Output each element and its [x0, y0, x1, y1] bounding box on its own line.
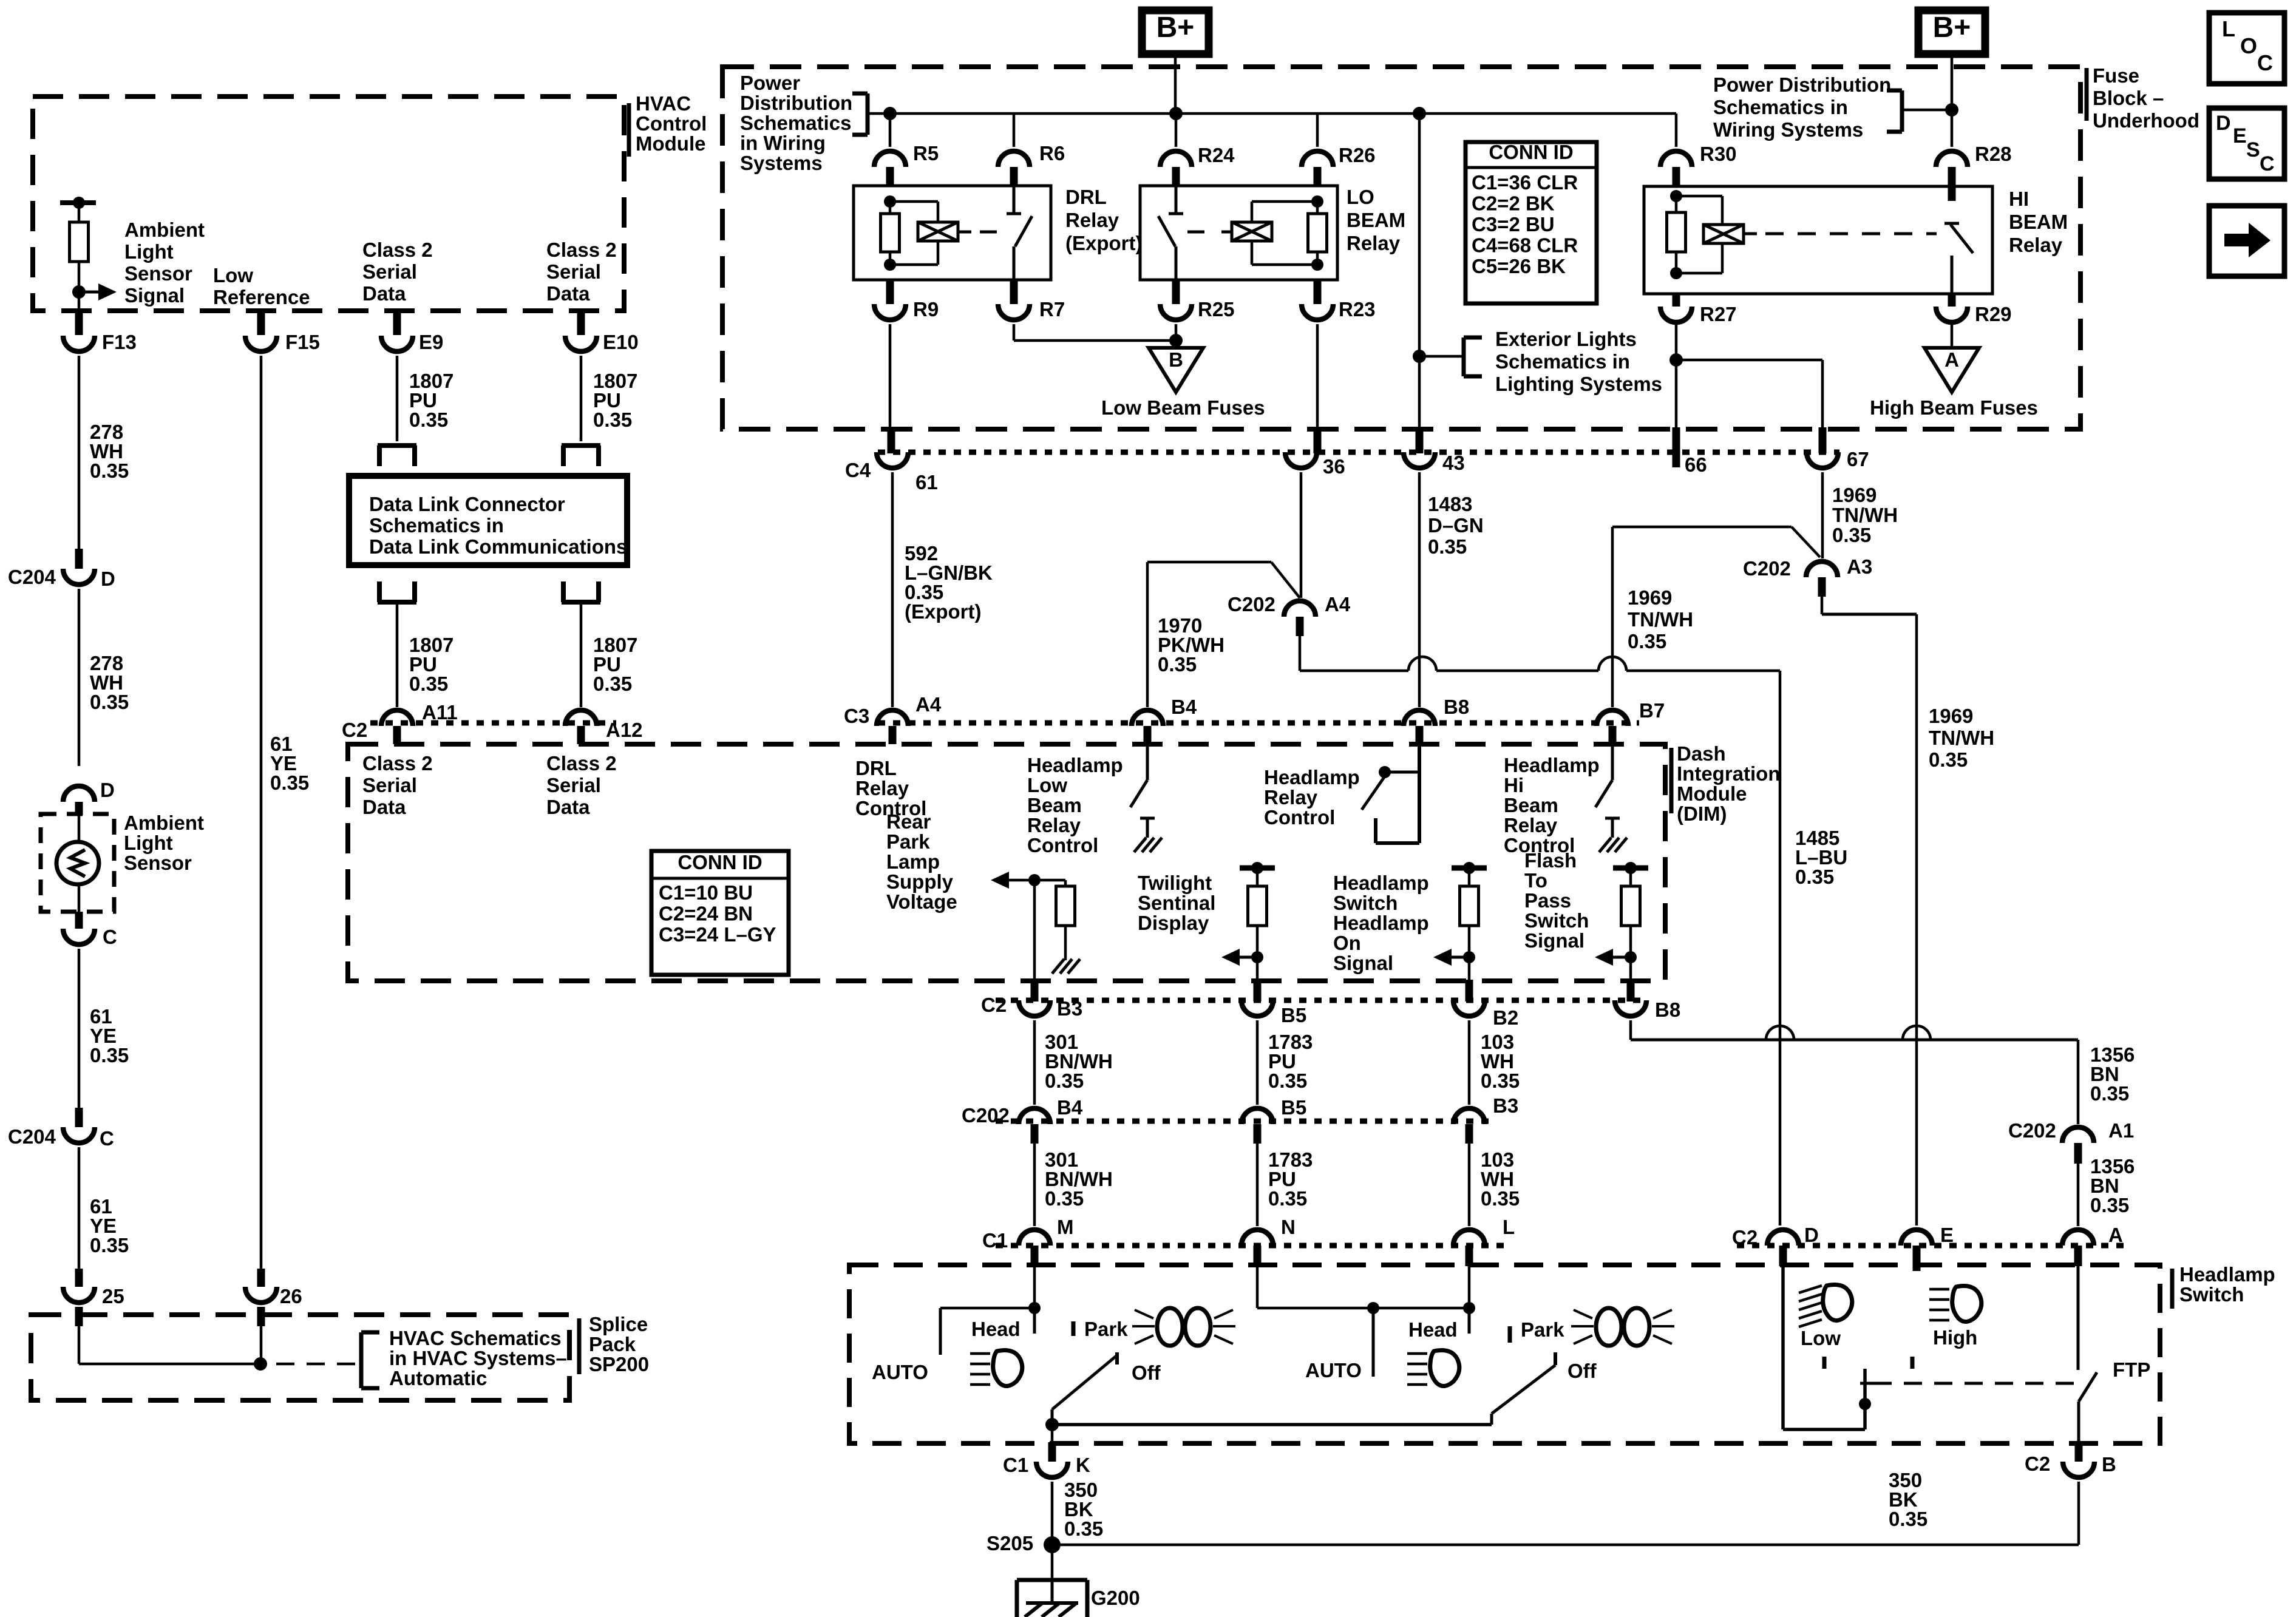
auto contact switch 2 — [1372, 1308, 1375, 1377]
svg-text:0.35: 0.35 — [1045, 1187, 1084, 1210]
wire E stub into switch — [1915, 1266, 1918, 1271]
twilight sentinel circuit top bar — [1240, 866, 1275, 871]
low contact — [1822, 1357, 1827, 1369]
junction B+ R24 feed — [1169, 107, 1183, 120]
DRL relay switch — [1013, 186, 1016, 214]
svg-text:Automatic: Automatic — [389, 1367, 487, 1389]
svg-text:B3: B3 — [1057, 997, 1082, 1020]
wire — [78, 203, 81, 222]
svg-text:C202: C202 — [962, 1104, 1010, 1127]
connector D ambient light sensor — [63, 786, 95, 802]
svg-text:B8: B8 — [1655, 998, 1680, 1021]
wire 36 to C202 A4 — [1300, 472, 1303, 598]
headlamp icon switch 1 — [993, 1351, 1022, 1386]
svg-text:Exterior Lights: Exterior Lights — [1495, 328, 1637, 350]
DRL relay (export) box — [854, 186, 1051, 280]
svg-text:Headlamp: Headlamp — [1504, 754, 1600, 776]
svg-text:HI: HI — [2009, 188, 2029, 210]
park contact switch 2 — [1508, 1326, 1512, 1343]
svg-text:High Beam Fuses: High Beam Fuses — [1870, 396, 2038, 419]
svg-text:C4: C4 — [845, 459, 871, 481]
svg-text:D: D — [100, 779, 115, 801]
wire to A12 — [580, 602, 583, 707]
svg-text:B+: B+ — [1933, 12, 1971, 44]
svg-text:Module: Module — [636, 132, 705, 155]
svg-text:(DIM): (DIM) — [1677, 802, 1727, 825]
svg-text:B2: B2 — [1493, 1006, 1518, 1029]
svg-text:Systems: Systems — [740, 152, 823, 174]
svg-text:A3: A3 — [1847, 555, 1872, 578]
svg-text:Low Beam Fuses: Low Beam Fuses — [1101, 396, 1265, 419]
switch headlamp hi beam relay control — [1611, 744, 1614, 780]
svg-text:Module: Module — [1677, 782, 1747, 805]
wire 1483 D-GN 43 to B8 — [1418, 472, 1421, 707]
connector C3 A4 — [877, 710, 908, 726]
wire 43 from feed — [1418, 114, 1421, 427]
svg-text:E: E — [1940, 1224, 1954, 1246]
svg-text:R28: R28 — [1975, 143, 2012, 165]
connector C202 A1 — [2062, 1127, 2094, 1143]
ambient light sensor dashed box — [41, 814, 114, 912]
dotted connector row C3 B4 B8 B7 — [878, 720, 1639, 726]
auto contact switch 1 — [940, 1307, 1034, 1310]
connector B4 — [1132, 710, 1163, 726]
svg-text:R26: R26 — [1339, 144, 1376, 166]
svg-text:Park: Park — [886, 830, 930, 853]
svg-text:66: 66 — [1685, 453, 1707, 476]
junction 43 feed — [1413, 107, 1426, 120]
connector C202 A3 — [1806, 561, 1838, 577]
svg-text:High: High — [1933, 1326, 1977, 1349]
svg-text:M: M — [1057, 1216, 1074, 1238]
svg-text:Head: Head — [971, 1318, 1021, 1340]
svg-text:C202: C202 — [2008, 1119, 2056, 1142]
svg-text:0.35: 0.35 — [1795, 866, 1834, 888]
svg-text:Underhood: Underhood — [2093, 109, 2199, 132]
svg-text:D: D — [101, 568, 115, 590]
flash to pass circuit top bar — [1613, 866, 1648, 871]
connector 36 — [1285, 452, 1317, 468]
svg-text:C2: C2 — [981, 994, 1007, 1016]
svg-text:Ambient: Ambient — [124, 812, 204, 834]
svg-text:Headlamp: Headlamp — [1264, 766, 1360, 788]
flash to pass resistor — [1622, 886, 1640, 926]
splice S205 — [1044, 1536, 1061, 1553]
svg-text:A4: A4 — [915, 693, 942, 716]
svg-text:Hi: Hi — [1504, 774, 1524, 796]
bracket power distribution left — [866, 93, 870, 135]
connector C2 D — [1767, 1230, 1799, 1246]
connector C202 A4 — [1284, 601, 1316, 617]
LO BEAM relay resistor — [1311, 195, 1323, 208]
wire A3 down to E — [1821, 597, 1824, 614]
svg-text:A: A — [2108, 1224, 2123, 1246]
connector C2 B — [2075, 1442, 2083, 1462]
HI BEAM relay coil — [1676, 195, 1722, 198]
svg-text:FTP: FTP — [2113, 1358, 2150, 1381]
bracket HVAC schematics — [359, 1332, 364, 1388]
svg-text:Sensor: Sensor — [124, 262, 192, 285]
HVAC Control Module dashed box — [33, 97, 624, 311]
connector C ambient light sensor — [75, 912, 83, 929]
svg-text:Serial: Serial — [546, 774, 601, 796]
wire R25 to low beam fuses — [1175, 324, 1178, 341]
svg-text:R25: R25 — [1198, 298, 1235, 320]
svg-text:C202: C202 — [1743, 557, 1791, 580]
connector B5 row3 — [1241, 1108, 1273, 1124]
svg-text:1969: 1969 — [1929, 705, 1973, 727]
wire B to S205 run — [2077, 1482, 2080, 1545]
svg-text:CONN ID: CONN ID — [678, 851, 762, 873]
svg-text:Sentinal: Sentinal — [1138, 892, 1215, 914]
dotted connector row C2 B3 B5 B2 B8 — [996, 998, 1648, 1003]
svg-text:Power: Power — [740, 72, 800, 94]
svg-text:Headlamp: Headlamp — [1333, 912, 1429, 934]
svg-text:Lamp: Lamp — [886, 850, 940, 873]
svg-text:Control: Control — [636, 112, 707, 135]
svg-text:Wiring Systems: Wiring Systems — [1713, 118, 1863, 141]
svg-text:0.35: 0.35 — [1268, 1187, 1307, 1210]
LOC reference box — [2209, 13, 2284, 84]
svg-text:R24: R24 — [1198, 144, 1235, 166]
svg-text:R6: R6 — [1039, 142, 1065, 164]
wire R29 to high beam fuses — [1951, 324, 1954, 348]
CONN ID box fuse block — [1466, 142, 1597, 303]
wire E10 class 2 serial data — [577, 312, 585, 335]
wire R23 to 36 — [1316, 324, 1319, 429]
wire switch common line — [1052, 1423, 1492, 1426]
svg-text:C2: C2 — [2025, 1453, 2050, 1475]
svg-text:LO: LO — [1347, 186, 1374, 208]
wire headlamp on to B2 — [1468, 957, 1471, 980]
svg-text:Twilight: Twilight — [1138, 872, 1212, 894]
headlamp on signal circuit top bar — [1452, 866, 1487, 871]
svg-text:Head: Head — [1408, 1318, 1458, 1341]
wire feed bus — [868, 112, 1676, 115]
svg-text:A1: A1 — [2108, 1119, 2134, 1142]
svg-text:C2=24 BN: C2=24 BN — [659, 903, 753, 925]
rear park lamp circuit arrow — [991, 872, 1009, 889]
svg-text:0.35: 0.35 — [90, 691, 129, 713]
svg-text:Schematics in: Schematics in — [369, 514, 504, 537]
svg-text:F15: F15 — [285, 331, 320, 353]
low beam icon — [1823, 1285, 1852, 1321]
wire bracket to B+ right — [1902, 109, 1952, 112]
wire B3 to C202 B4 — [1033, 1020, 1036, 1105]
wire twilight to B5 — [1256, 957, 1259, 980]
svg-text:AUTO: AUTO — [1305, 1359, 1362, 1381]
svg-text:C: C — [2260, 152, 2275, 175]
svg-text:N: N — [1281, 1216, 1296, 1238]
twilight sentinel resistor — [1248, 886, 1267, 926]
svg-text:Pass: Pass — [1524, 889, 1571, 912]
wire 67 down to A3 — [1821, 472, 1824, 558]
svg-text:B4: B4 — [1057, 1096, 1083, 1119]
connector 26 splice pack — [257, 1269, 265, 1287]
svg-text:Class 2: Class 2 — [546, 239, 617, 261]
svg-text:K: K — [1076, 1454, 1090, 1476]
wire R7 to low beam fuses — [1013, 324, 1016, 341]
off contact switch 2 — [1554, 1352, 1557, 1365]
HI BEAM relay switch — [1944, 222, 1959, 225]
park contact switch 1 — [1072, 1321, 1076, 1336]
fuse block label bar — [2085, 68, 2089, 121]
svg-text:Park: Park — [1084, 1318, 1128, 1340]
svg-text:F13: F13 — [102, 331, 137, 353]
svg-text:Off: Off — [1567, 1360, 1597, 1382]
bracket E10 to data link box — [562, 443, 600, 448]
svg-text:B4: B4 — [1171, 696, 1197, 718]
switch 1 blade — [1052, 1355, 1118, 1409]
svg-text:1969: 1969 — [1832, 484, 1877, 506]
svg-text:To: To — [1524, 869, 1547, 892]
svg-text:DRL: DRL — [1065, 186, 1107, 208]
svg-text:Headlamp: Headlamp — [2179, 1263, 2275, 1286]
connector C1 M — [1019, 1230, 1050, 1246]
svg-text:BEAM: BEAM — [2009, 211, 2068, 233]
wire B+ left — [1174, 54, 1177, 114]
wire C202 B3 to C1 L — [1468, 1144, 1471, 1226]
ground G200 — [1017, 1578, 1087, 1582]
connector R6 — [1013, 114, 1016, 147]
connector E9 — [381, 336, 413, 351]
wire 278 WH 2 — [78, 589, 81, 766]
fuse block underhood dashed box — [722, 67, 2080, 429]
wire E9 class 2 serial data — [393, 312, 401, 335]
svg-text:61: 61 — [915, 471, 938, 493]
DESC reference box — [2209, 108, 2284, 179]
wire 61 YE — [78, 949, 81, 1108]
svg-text:0.35: 0.35 — [90, 1044, 129, 1066]
dotted connector row C202 B4 B5 B3 — [996, 1119, 1493, 1124]
svg-text:0.35: 0.35 — [1481, 1070, 1520, 1092]
svg-text:C: C — [103, 926, 117, 948]
LO BEAM relay coil — [1252, 200, 1317, 203]
svg-text:Light: Light — [124, 832, 173, 854]
HVAC Control Module label bar — [627, 103, 631, 157]
svg-text:0.35: 0.35 — [90, 1234, 129, 1256]
head contact switch 1 — [1033, 1308, 1036, 1334]
svg-text:C3: C3 — [844, 705, 869, 727]
wire A4 down to D — [1299, 636, 1302, 671]
dotted connector row C2 A11 A12 — [370, 720, 616, 726]
svg-text:Display: Display — [1138, 912, 1209, 934]
wire N into switch — [1256, 1266, 1259, 1308]
svg-text:B5: B5 — [1281, 1096, 1306, 1119]
svg-text:R7: R7 — [1039, 298, 1065, 320]
park lamps icon switch 2 — [1596, 1308, 1622, 1346]
svg-text:Integration: Integration — [1677, 762, 1781, 785]
svg-text:A12: A12 — [606, 719, 643, 741]
connector 67 — [1819, 427, 1827, 453]
connector A12 — [565, 710, 597, 726]
connector C204 C — [75, 1108, 83, 1127]
svg-text:C3=24 L–GY: C3=24 L–GY — [659, 923, 776, 946]
wire A to FTP — [2077, 1266, 2080, 1370]
svg-text:A: A — [1944, 348, 1959, 371]
svg-text:Supply: Supply — [886, 870, 954, 893]
svg-text:0.35: 0.35 — [593, 408, 632, 431]
svg-text:Ambient: Ambient — [124, 219, 205, 241]
svg-text:SP200: SP200 — [589, 1353, 649, 1375]
svg-text:Control: Control — [1264, 806, 1335, 829]
svg-text:Class 2: Class 2 — [362, 752, 433, 775]
dotted connector row C1 M N L — [996, 1243, 1506, 1249]
wire D into beam select — [1781, 1266, 1785, 1429]
connector E — [1901, 1230, 1932, 1246]
svg-text:Relay: Relay — [1027, 814, 1081, 836]
bracket power distribution right — [1900, 90, 1904, 132]
svg-text:R29: R29 — [1975, 303, 2012, 325]
svg-text:B+: B+ — [1156, 12, 1195, 44]
connector B5 row2 — [1241, 1000, 1273, 1016]
svg-text:Class 2: Class 2 — [362, 239, 433, 261]
svg-text:E10: E10 — [603, 331, 639, 353]
svg-text:Switch: Switch — [1333, 892, 1398, 914]
svg-text:B7: B7 — [1639, 699, 1665, 722]
headlamp on signal resistor — [1460, 886, 1479, 926]
wire R9 to C4 — [889, 324, 892, 429]
svg-text:D–GN: D–GN — [1428, 514, 1484, 537]
headlamp switch label bar — [2170, 1269, 2175, 1309]
connector A — [2062, 1230, 2094, 1246]
svg-text:B3: B3 — [1493, 1094, 1518, 1117]
LO BEAM relay linkage dashes — [1187, 231, 1214, 234]
connector C1 K — [1036, 1462, 1068, 1477]
svg-text:Beam: Beam — [1504, 794, 1558, 816]
connector R9 — [886, 280, 894, 304]
svg-text:Relay: Relay — [1264, 786, 1318, 808]
DIM label bar — [1669, 748, 1674, 813]
svg-text:1483: 1483 — [1428, 493, 1472, 515]
svg-text:C202: C202 — [1228, 593, 1275, 615]
svg-text:HVAC: HVAC — [636, 92, 691, 115]
wire 66 stub — [1675, 360, 1678, 427]
svg-text:36: 36 — [1323, 455, 1345, 478]
svg-text:(Export): (Export) — [1065, 232, 1143, 254]
connector C202 B4 row3 — [1019, 1108, 1050, 1124]
svg-text:0.35: 0.35 — [2090, 1082, 2129, 1105]
svg-text:Control: Control — [1027, 834, 1098, 856]
B+ feed box right — [1918, 10, 1985, 54]
svg-text:R5: R5 — [913, 142, 939, 164]
svg-text:Rear: Rear — [886, 810, 931, 833]
svg-text:Flash: Flash — [1524, 849, 1577, 872]
svg-text:Class 2: Class 2 — [546, 752, 617, 775]
wire to A11 — [396, 602, 399, 707]
svg-text:0.35: 0.35 — [593, 673, 632, 695]
bracket E9 to data link box — [378, 443, 416, 448]
svg-text:0.35: 0.35 — [409, 408, 448, 431]
svg-text:Signal: Signal — [1524, 929, 1584, 952]
headlamp switch dashed box — [849, 1265, 2160, 1443]
connector R28 — [1951, 110, 1954, 147]
off contact switch 1 — [1115, 1352, 1119, 1364]
svg-text:0.35: 0.35 — [2090, 1194, 2129, 1216]
svg-text:BEAM: BEAM — [1347, 209, 1405, 231]
svg-text:Pack: Pack — [589, 1333, 636, 1355]
svg-text:C2=2 BK: C2=2 BK — [1472, 192, 1555, 215]
svg-text:0.35: 0.35 — [1064, 1517, 1103, 1540]
DRL relay linkage dashes — [958, 231, 971, 234]
wire F13 stub — [78, 292, 81, 312]
switch headlamp relay control — [1418, 744, 1421, 843]
head contact switch 2 — [1468, 1308, 1471, 1334]
DRL relay coil — [890, 200, 938, 203]
resistor ambient light sensor pull-up — [70, 222, 89, 262]
connector R24 — [1175, 114, 1178, 147]
wire A1 to A — [2077, 1164, 2080, 1226]
svg-text:Data: Data — [546, 796, 590, 818]
svg-text:1969: 1969 — [1628, 586, 1672, 609]
svg-text:B: B — [2102, 1453, 2116, 1476]
svg-text:Fuse: Fuse — [2093, 64, 2139, 87]
svg-text:D: D — [1804, 1224, 1819, 1246]
svg-text:L: L — [2222, 16, 2235, 41]
svg-text:C: C — [2257, 50, 2273, 75]
svg-text:Voltage: Voltage — [886, 890, 957, 913]
svg-text:A11: A11 — [422, 701, 458, 724]
svg-text:Headlamp: Headlamp — [1333, 872, 1429, 894]
wire K to C1 — [1051, 1425, 1054, 1442]
connector B2 row2 — [1453, 1000, 1485, 1016]
svg-text:Off: Off — [1132, 1361, 1161, 1384]
connector C204 D — [75, 549, 83, 569]
junction exterior lights note — [1413, 350, 1426, 363]
high beam icon — [1952, 1286, 1982, 1322]
flash to pass linkage dashes — [1873, 1382, 2076, 1385]
switch 2 blade — [1492, 1365, 1555, 1414]
node ambient light sensor signal junction with arrow — [72, 285, 86, 299]
svg-text:O: O — [2240, 33, 2257, 58]
CONN ID box DIM — [651, 851, 789, 975]
DRL relay resistor branch — [884, 195, 896, 208]
junction R5 feed — [883, 107, 897, 120]
wire F15 low reference — [257, 312, 265, 335]
svg-text:0.35: 0.35 — [90, 459, 129, 482]
svg-text:R30: R30 — [1700, 143, 1737, 165]
svg-text:0.35: 0.35 — [1889, 1508, 1927, 1530]
connector B3 row3 — [1453, 1108, 1485, 1124]
svg-text:R23: R23 — [1339, 298, 1376, 320]
connector R26 — [1316, 114, 1319, 147]
svg-text:C204: C204 — [8, 566, 56, 588]
svg-text:in Wiring: in Wiring — [740, 132, 826, 154]
svg-text:Dash: Dash — [1677, 742, 1726, 765]
svg-text:Serial: Serial — [362, 774, 417, 796]
svg-text:Splice: Splice — [589, 1313, 648, 1335]
svg-text:Distribution: Distribution — [740, 92, 852, 114]
svg-text:CONN ID: CONN ID — [1489, 141, 1573, 163]
svg-text:(Export): (Export) — [905, 600, 982, 623]
svg-text:26: 26 — [280, 1285, 302, 1307]
svg-text:0.35: 0.35 — [1832, 524, 1871, 546]
svg-text:TN/WH: TN/WH — [1832, 504, 1898, 526]
svg-text:Schematics in: Schematics in — [1495, 350, 1630, 373]
HI BEAM relay linkage dashes — [1744, 232, 1757, 236]
connector N — [1241, 1230, 1273, 1246]
svg-text:R9: R9 — [913, 298, 939, 320]
svg-text:C1=36 CLR: C1=36 CLR — [1472, 171, 1578, 194]
svg-text:TN/WH: TN/WH — [1628, 608, 1693, 631]
svg-text:Block –: Block – — [2093, 87, 2164, 109]
wire — [78, 262, 81, 292]
FTP blade — [2079, 1372, 2097, 1402]
twilight sentinel arrow junction — [1251, 951, 1263, 963]
connector B8 row1 — [1404, 710, 1435, 726]
wire S205 to G200 — [1051, 1545, 1054, 1580]
connector 25 splice pack — [75, 1269, 83, 1287]
